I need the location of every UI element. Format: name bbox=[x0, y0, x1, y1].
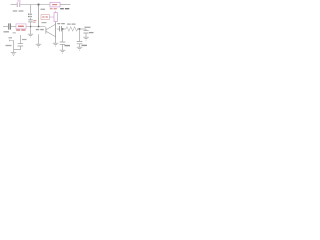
value text under rail right (dark) bbox=[50, 8, 57, 10]
ground for C2 bbox=[28, 34, 33, 37]
text right of drop (gray) bbox=[41, 8, 46, 10]
wire vertical drop x30.5 top bbox=[30, 5, 32, 13]
wire below C8 bend bbox=[14, 46, 21, 49]
ground C6 bbox=[77, 47, 83, 50]
ground emitter bbox=[53, 43, 59, 46]
wire end drop x86 bbox=[85, 29, 87, 30]
C4 value text above (gray) bbox=[57, 23, 65, 25]
wire collector up bbox=[55, 22, 57, 25]
resistor R3 vertical box bbox=[55, 11, 57, 13]
label C1 (pink) bbox=[17, 0, 20, 2]
Q1 collector diagonal bbox=[46, 24, 55, 30]
ground C7 bbox=[83, 37, 89, 40]
wire base segment bbox=[26, 26, 45, 28]
output wire from Q1 bbox=[57, 28, 59, 30]
input wire to R1 bbox=[11, 26, 16, 28]
R4 value text above (gray) bbox=[67, 23, 75, 25]
capacitor C7 plates bbox=[83, 31, 88, 33]
R2 red text inside bbox=[52, 4, 57, 6]
RB1 leader line bbox=[49, 16, 54, 18]
R1 red text inside bbox=[18, 25, 24, 27]
wire mic cap branch vertical bbox=[20, 35, 22, 43]
resistor R4 zigzag bbox=[66, 27, 78, 31]
mic terminal tick bbox=[9, 40, 13, 42]
red text right of C2 bbox=[33, 21, 36, 23]
wire vertical drop x38.5 bbox=[38, 5, 40, 27]
text above tick bbox=[9, 37, 13, 39]
C8 text right bbox=[22, 39, 27, 41]
ground lower x38.5 bbox=[36, 44, 42, 47]
Q1 part number text (gray) bbox=[36, 29, 44, 31]
value text under C1 (gray) bbox=[13, 10, 24, 12]
node junction at rail x38.5 bbox=[38, 4, 40, 6]
wire below C7 bbox=[85, 33, 87, 37]
wire rail right segment bbox=[60, 4, 71, 6]
capacitor C2 plates on x30.5 bbox=[28, 20, 32, 22]
RB1 red text inside bbox=[42, 16, 48, 18]
node junction base x38.5 bbox=[38, 26, 40, 28]
R1 value text below (gray) bbox=[16, 29, 25, 31]
Q1 emitter diagonal bbox=[46, 31, 55, 36]
C7 text right bbox=[89, 32, 94, 34]
capacitor C1 plates bbox=[17, 2, 20, 7]
wire below C5 bbox=[62, 45, 64, 51]
wire after R4 bbox=[77, 28, 86, 30]
input text left lower (gray) bbox=[4, 31, 10, 33]
red label box RB1 bbox=[41, 15, 49, 20]
mic label text bbox=[6, 45, 12, 47]
wire emitter down bbox=[55, 37, 57, 43]
transistor Q1 body vertical bbox=[55, 24, 57, 38]
input wire left bbox=[3, 26, 8, 28]
C6 value text right bbox=[82, 44, 88, 46]
wire drop x79.5 bbox=[79, 29, 81, 41]
ground C5 bbox=[60, 50, 66, 53]
wire rail mid segment bbox=[21, 4, 50, 6]
wire drop x62.5 bbox=[62, 29, 64, 42]
resistor R2 box on rail bbox=[50, 2, 60, 7]
small gray text below red box bbox=[42, 22, 47, 24]
capacitor C5 plates bbox=[60, 42, 66, 44]
resistor R1 box bbox=[16, 24, 26, 29]
capacitor C4 plates output bbox=[60, 26, 62, 31]
wire mic vertical bbox=[13, 41, 15, 53]
C5 value text right bbox=[65, 45, 71, 47]
capacitor C3 plates input bbox=[9, 23, 11, 29]
wire top rail left segment bbox=[11, 4, 17, 6]
node junction x79.5 bbox=[79, 28, 81, 30]
node junction base x30.5 bbox=[30, 26, 31, 27]
capacitor C8 plates bbox=[18, 44, 24, 46]
ground mic bbox=[11, 52, 17, 55]
node junction x62.5 bbox=[62, 28, 64, 30]
text label on x30.5 (dark stacked) bbox=[28, 14, 32, 16]
wire below C6 bbox=[79, 44, 81, 47]
wire after C4 bbox=[62, 28, 66, 30]
capacitor C6 plates bbox=[77, 42, 83, 44]
Q1 base bar bbox=[45, 27, 47, 34]
wire x38.5 to lower ground bbox=[38, 34, 40, 44]
wire x30.5 between plates and base wire bbox=[30, 18, 32, 34]
C7 text above bbox=[85, 26, 91, 28]
